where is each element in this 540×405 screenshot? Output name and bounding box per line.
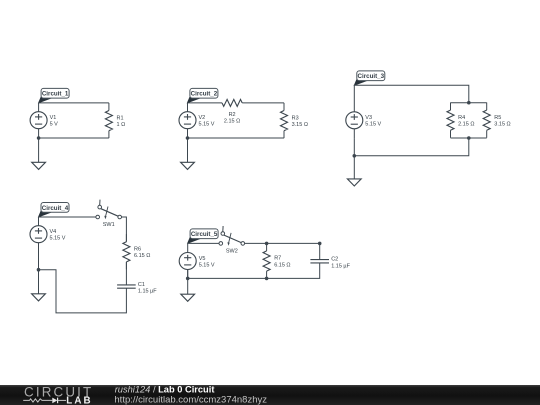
svg-text:1.15 µF: 1.15 µF [331,263,350,269]
node junction [186,277,190,281]
net flag label Circuit_3 [354,71,385,85]
node junction [467,136,471,140]
wire [125,262,127,285]
resistor R1 [105,103,112,138]
wire [354,138,469,156]
footer watermark bar [0,385,540,405]
ground [32,270,46,301]
wire [188,263,320,279]
svg-text:V5: V5 [199,256,206,262]
svg-text:6.15 Ω: 6.15 Ω [134,253,150,259]
svg-text:5 V: 5 V [50,122,59,128]
svg-text:Circuit_4: Circuit_4 [42,205,69,212]
R1 label (R1 1 Ω) [117,115,126,128]
wire [245,242,320,244]
svg-text:SW1: SW1 [103,222,115,228]
svg-text:V4: V4 [50,229,57,235]
svg-text:rushi124 / Lab 0 Circuit: rushi124 / Lab 0 Circuit [115,385,215,395]
circuit 2 group [179,88,308,169]
svg-text:C2: C2 [331,257,338,263]
voltage source V1 [30,103,47,138]
R5 label (R5 3.15 Ω) [494,115,510,128]
V3 label (V3 5.15 V) [365,115,381,128]
R3 label (R3 3.15 Ω) [292,115,308,128]
wire [188,137,285,139]
wire [188,242,219,244]
wire [451,137,487,139]
R7 label (R7 6.15 Ω) [274,256,290,269]
svg-text:V2: V2 [199,115,206,121]
wire [38,243,40,270]
svg-text:3.15 Ω: 3.15 Ω [494,122,510,128]
circuit 5 group [179,226,350,301]
ground [32,138,46,169]
svg-text:V3: V3 [365,115,372,121]
net flag label Circuit_1 [39,88,70,102]
V2 label (V2 5.15 V) [199,115,215,128]
node junction [186,136,190,140]
voltage source V3 [346,103,363,138]
resistor R6 [123,234,130,269]
logo diode glyph [52,398,66,404]
svg-text:Circuit_1: Circuit_1 [42,91,69,98]
svg-text:R2: R2 [229,112,236,118]
V1 label (V1 5 V) [50,115,59,128]
svg-text:5.15 V: 5.15 V [199,122,215,128]
node junction [37,268,41,272]
circuit 3 group [346,71,511,186]
resistor R5 [483,103,490,138]
svg-text:3.15 Ω: 3.15 Ω [292,122,308,128]
svg-text:Circuit_5: Circuit_5 [191,231,218,238]
R2 label (R2 2.15 Ω) [224,112,240,125]
node junction [353,154,357,158]
net flag label Circuit_4 [39,203,70,217]
resistor R3 [281,103,288,138]
V4 label (V4 5.15 V) [50,229,66,242]
wire [122,217,127,242]
svg-text:LAB: LAB [66,395,90,405]
ground [181,138,195,169]
wire [39,270,127,313]
CircuitLab logo [23,384,91,405]
node junction [265,242,269,246]
circuit 4 group [30,200,157,313]
wire [187,270,189,279]
wire [354,85,469,103]
circuit 1 group [30,88,125,169]
net flag label Circuit_5 [188,229,219,243]
node junction [37,136,41,140]
svg-text:SW2: SW2 [226,248,238,254]
capacitor C2 [310,260,329,263]
wire [39,102,109,104]
svg-text:5.15 V: 5.15 V [199,262,215,268]
wire [39,216,96,218]
wire [188,102,223,104]
voltage source V5 [179,244,196,279]
wire [319,243,321,259]
resistor R7 [263,243,270,278]
svg-text:R3: R3 [292,115,299,121]
svg-text:R5: R5 [494,115,501,121]
R4 label (R4 2.15 Ω) [458,115,474,128]
voltage source V2 [179,103,196,138]
svg-text:2.15 Ω: 2.15 Ω [458,122,474,128]
wire [353,138,355,156]
net flag label Circuit_2 [187,88,218,102]
svg-text:R1: R1 [117,115,124,121]
ground [347,156,361,186]
node junction [265,277,269,281]
svg-text:C1: C1 [138,282,145,288]
node junction [467,101,471,105]
svg-text:R6: R6 [134,247,141,253]
svg-text:1.15 µF: 1.15 µF [138,289,157,295]
wire [451,102,487,104]
svg-text:http://circuitlab.com/ccmz374n: http://circuitlab.com/ccmz374n8zhyz [114,394,267,405]
switch SW2 (SPDT toggle) [219,226,245,246]
wire [39,137,109,139]
logo resistor glyph [23,399,52,402]
svg-text:Circuit_2: Circuit_2 [191,91,218,98]
capacitor C1 [117,285,136,288]
svg-text:R4: R4 [458,115,465,121]
svg-text:V1: V1 [50,115,57,121]
V5 label (V5 5.15 V) [199,256,215,269]
ground [181,278,195,301]
C2 label (C2 1.15 µF) [331,257,350,270]
switch SW1 (SPDT toggle) [96,200,122,220]
svg-text:6.15 Ω: 6.15 Ω [274,262,290,268]
svg-text:Circuit_3: Circuit_3 [358,73,385,80]
voltage source V4 [30,217,47,252]
svg-text:R7: R7 [274,256,281,262]
svg-text:1 Ω: 1 Ω [117,122,126,128]
svg-text:5.15 V: 5.15 V [365,122,381,128]
resistor R2 [222,99,242,106]
wire [242,102,284,104]
resistor R4 [447,103,454,138]
svg-text:5.15 V: 5.15 V [50,236,66,242]
C1 label (C1 1.15 µF) [138,282,157,295]
svg-text:2.15 Ω: 2.15 Ω [224,119,240,125]
R6 label (R6 6.15 Ω) [134,247,150,260]
node junction [318,242,322,246]
